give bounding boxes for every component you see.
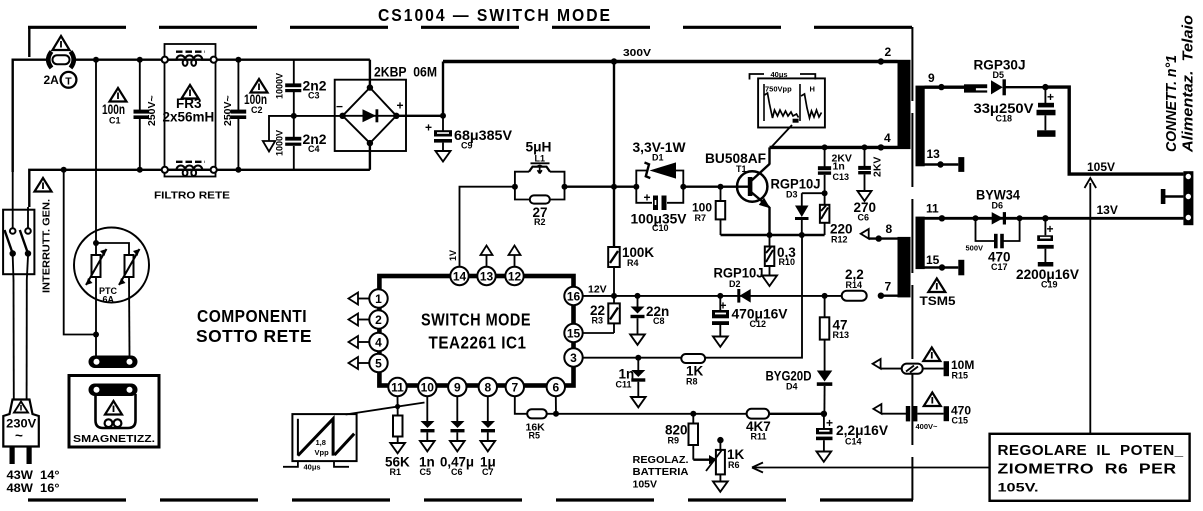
svg-text:3: 3 [570, 351, 577, 365]
diode D5 RGP30J [991, 79, 1045, 95]
svg-text:C10: C10 [652, 223, 669, 233]
warning triangle interrutt [35, 178, 52, 192]
svg-text:SMAGNETIZZ.: SMAGNETIZZ. [73, 433, 155, 445]
capacitor C19 2200u16V [1037, 218, 1054, 266]
pin 12 [505, 267, 523, 285]
warning triangle C2 [251, 79, 268, 93]
junction dot pin6 [553, 411, 559, 417]
transformer secondary winding 11-15 [916, 217, 925, 270]
svg-text:R11: R11 [751, 432, 767, 442]
svg-text:R4: R4 [627, 258, 639, 268]
wire pin 11 / 13V rail [925, 217, 1184, 220]
wire R4 to 12V rail [613, 267, 615, 296]
label 40us bracket [750, 70, 816, 80]
label 16K R5 [526, 422, 546, 441]
junction dot x614 base wire [611, 184, 617, 190]
resistor R7 100 [716, 187, 726, 235]
diode D1 parallel C10 loop [636, 171, 683, 203]
wire collector row pin4 [770, 146, 898, 149]
svg-text:D3: D3 [786, 190, 798, 200]
resistor R11 4K7 [747, 409, 770, 419]
junction dot pin11 [939, 215, 945, 221]
junction dot [93, 332, 99, 338]
degauss connector bar [89, 356, 138, 369]
junction dot C16 [1042, 84, 1048, 90]
label 1n C11 [616, 367, 635, 390]
svg-text:SWITCH MODE: SWITCH MODE [421, 310, 531, 330]
junction dot [235, 167, 241, 173]
svg-text:C9: C9 [461, 141, 473, 151]
mains plug 230V [3, 400, 39, 447]
wire mains L to fuse [13, 60, 47, 172]
svg-text:2x56mH: 2x56mH [163, 110, 215, 125]
label FR3 2x56mH [163, 96, 215, 125]
smagnetizz box [69, 376, 159, 448]
label 2KV 1n C13 [832, 153, 852, 183]
dashed border right / isolation line [911, 27, 913, 500]
svg-text:FILTRO RETE: FILTRO RETE [154, 190, 230, 202]
callout line waveform to collector [770, 125, 792, 149]
svg-text:R14: R14 [846, 280, 863, 290]
svg-text:L1: L1 [535, 154, 546, 164]
degauss coil symbol [96, 394, 136, 428]
svg-text:D6: D6 [992, 201, 1004, 211]
pin8 arrow terminal [861, 229, 898, 239]
wire PTC feed [95, 60, 97, 243]
capacitor C4 [285, 116, 301, 170]
label 1u C7 [480, 455, 496, 478]
svg-text:R12: R12 [831, 235, 848, 245]
op-amp IC1 TEA2261 box [379, 276, 573, 386]
svg-text:+: + [1047, 222, 1054, 236]
svg-text:C8: C8 [653, 316, 665, 326]
pin 13 [477, 267, 495, 285]
svg-text:BATTERIA: BATTERIA [633, 466, 689, 478]
svg-text:750Vpp: 750Vpp [765, 85, 792, 94]
arrow pin 1 [349, 293, 370, 305]
thermistor PTC b [119, 249, 140, 285]
wire bridge AC bottom [369, 143, 371, 170]
svg-text:D4: D4 [786, 382, 798, 392]
transformer secondary winding 9-13 [916, 86, 925, 167]
junction dot C12 [717, 293, 723, 299]
label RGP10J D2 [714, 266, 764, 290]
capacitor C11 1n [631, 358, 645, 397]
chassis arrow C7 [481, 441, 496, 451]
label 68u385V C9 [454, 128, 512, 151]
svg-text:500V: 500V [966, 244, 984, 253]
svg-text:6A: 6A [103, 295, 115, 305]
terminal bar pin13 [958, 157, 964, 172]
junction dot C17 left [973, 215, 979, 221]
svg-text:R3: R3 [592, 316, 604, 326]
svg-text:300V: 300V [623, 47, 651, 59]
waveform box 750Vpp [758, 78, 825, 127]
svg-text:+: + [397, 99, 404, 113]
svg-text:C6: C6 [451, 467, 463, 477]
junction dot [137, 167, 143, 173]
capacitor C6 270 2KV [858, 147, 871, 191]
label 820 R9 [665, 423, 688, 446]
wire pin 13 [925, 163, 959, 165]
resistor R13 47 [820, 296, 830, 371]
svg-text:+: + [1047, 90, 1054, 104]
junction dot pin7 [878, 293, 884, 299]
dashed border corner stub [28, 26, 30, 57]
zener D1 3,3V-1W [645, 162, 677, 178]
svg-text:14: 14 [453, 270, 467, 284]
arrow pin 13 [481, 246, 493, 267]
junction dot C13 top [822, 144, 828, 150]
chassis arrow C5 [420, 441, 435, 451]
resistor R4 100K [608, 247, 620, 267]
junction dot C6 top [862, 144, 868, 150]
label 100K R4 [622, 245, 654, 268]
transformer primary winding 8-7 [898, 237, 911, 298]
svg-text:9: 9 [928, 71, 935, 85]
svg-text:13: 13 [480, 270, 494, 284]
wire pin7 [881, 295, 903, 297]
junction dot pin9 [938, 84, 944, 90]
svg-text:REGOLAZ.: REGOLAZ. [633, 454, 689, 466]
label 2A (T) [44, 72, 77, 88]
potentiometer R6 1K [693, 437, 725, 482]
pin 1 [369, 289, 387, 307]
pin 11 [388, 378, 406, 396]
svg-text:R8: R8 [686, 377, 698, 387]
svg-text:TSM5: TSM5 [920, 294, 956, 308]
fuse F1 2A [48, 52, 74, 68]
capacitor C14 2,2u16V [816, 414, 833, 452]
svg-text:C11: C11 [616, 380, 632, 390]
label 40us bottom [283, 461, 349, 471]
thermistor PTC a [86, 243, 107, 285]
arrow pin 2L [349, 314, 370, 326]
svg-text:R2: R2 [534, 217, 546, 227]
svg-text:2,2μ16V: 2,2μ16V [836, 423, 888, 438]
warning triangle FR3 [182, 85, 199, 99]
label PTC 6A [99, 286, 118, 305]
label BU508AF T1 [705, 151, 766, 174]
svg-text:40μs: 40μs [771, 70, 788, 79]
resistor R2 [530, 195, 550, 203]
svg-text:250V~: 250V~ [222, 95, 234, 126]
svg-text:R10: R10 [779, 257, 796, 267]
svg-text:R7: R7 [695, 213, 707, 223]
svg-text:C15: C15 [952, 416, 969, 426]
svg-text:+: + [644, 191, 651, 205]
svg-text:1: 1 [375, 292, 382, 306]
warning triangle smagnetizz [105, 401, 122, 415]
svg-text:400V~: 400V~ [916, 422, 939, 431]
arrow pin 12 [509, 246, 521, 267]
svg-text:+: + [826, 416, 833, 430]
svg-text:R1: R1 [390, 467, 402, 477]
svg-text:15: 15 [567, 327, 581, 341]
resistor R1 56K [393, 396, 403, 443]
junction dot pin4 [878, 144, 884, 150]
wire D1 to base [683, 185, 748, 187]
junction dot [61, 167, 67, 173]
dashed border top [28, 26, 913, 29]
arrow pin 4L [349, 336, 370, 348]
svg-text:C12: C12 [750, 319, 767, 329]
label 270 C6 [854, 200, 877, 223]
label 22 R3 [590, 303, 605, 326]
svg-text:1n: 1n [833, 161, 845, 173]
junction dot [137, 57, 143, 63]
junction dot pin2 [878, 58, 884, 64]
label 500V 470 C17 [966, 244, 1011, 273]
svg-text:SOTTO RETE: SOTTO RETE [196, 326, 312, 346]
note box REGOLARE [990, 434, 1190, 501]
label 2,2u16V C14 [836, 423, 888, 447]
wire D3 node [802, 192, 825, 194]
svg-text:R5: R5 [529, 431, 541, 441]
wire pin 6 stub [555, 396, 557, 414]
diode D3 RGP10J [795, 193, 809, 235]
svg-text:C19: C19 [1041, 280, 1058, 290]
FR3 terminal circles [162, 57, 217, 173]
svg-text:2KBP 06M: 2KBP 06M [374, 65, 437, 80]
diode D2 RGP10J [737, 289, 750, 303]
label 56K R1 [385, 455, 410, 478]
junction dot R13 top [822, 293, 828, 299]
junction dot PTC [93, 240, 99, 246]
svg-text:48W 16°: 48W 16° [7, 481, 60, 495]
label 10M R15 [951, 358, 974, 381]
wire 12V rail [583, 295, 842, 297]
capacitor C3 [285, 60, 301, 116]
pin 10 [418, 378, 436, 396]
ground R10 [762, 276, 777, 287]
label 4K7 R11 [746, 419, 771, 442]
label RGP10J D3 [771, 177, 821, 200]
svg-text:15: 15 [926, 253, 940, 267]
svg-text:C6: C6 [858, 213, 870, 223]
wire emitter rail [721, 234, 825, 236]
label 2n2 C4 [303, 132, 327, 154]
svg-text:C7: C7 [482, 467, 494, 477]
svg-text:TEA2261 IC1: TEA2261 IC1 [429, 333, 527, 353]
resistor R3 22 [583, 296, 620, 333]
diode D6 BYW34 [992, 212, 1006, 224]
wire emitter [768, 207, 770, 235]
label 2200u16V C19 [1016, 267, 1079, 290]
wire 105V path [1045, 87, 1183, 174]
junction dot L1 right [562, 184, 568, 190]
wire pin 9 [925, 85, 965, 88]
pin 9B [448, 378, 466, 396]
svg-text:R15: R15 [952, 371, 969, 381]
svg-text:R13: R13 [833, 330, 850, 340]
wire degauss from bottom rail [64, 170, 96, 335]
svg-text:C1: C1 [109, 116, 121, 126]
svg-text:D2: D2 [729, 279, 741, 289]
svg-text:40μs: 40μs [304, 463, 321, 472]
chassis arrow C6b [450, 441, 465, 451]
svg-text:COMPONENTI: COMPONENTI [197, 306, 307, 326]
svg-text:7: 7 [511, 381, 518, 395]
pin 4L [369, 333, 387, 351]
junction dot C17 right [1017, 215, 1023, 221]
pin 5 [369, 354, 387, 372]
plug prongs [10, 447, 32, 465]
svg-text:5: 5 [375, 357, 382, 371]
svg-text:1,8: 1,8 [316, 438, 326, 447]
svg-text:8: 8 [484, 381, 491, 395]
svg-text:+: + [425, 121, 432, 135]
svg-text:12: 12 [508, 270, 522, 284]
smagnetizz connector bar [89, 384, 138, 397]
svg-text:REGOLARE IL POTEN_: REGOLARE IL POTEN_ [998, 442, 1184, 459]
svg-text:C14: C14 [845, 437, 862, 447]
resistor R9 820 [689, 414, 699, 460]
junction dot C8 [635, 293, 641, 299]
resistor R12 220 [820, 193, 830, 235]
svg-text:9: 9 [454, 381, 461, 395]
label 2,2 R14 [845, 267, 864, 290]
wire R8 to emitter node [705, 235, 802, 358]
arrow pin 5 [349, 357, 370, 369]
label BYG20D D4 [766, 369, 812, 392]
warning triangle C15 [924, 393, 941, 407]
resistor R8 1K [681, 354, 705, 363]
label 1K R6 [727, 447, 745, 470]
label 1,8 Vpp [315, 438, 330, 457]
resistor R15 10M row [873, 359, 949, 376]
inductor FR3 top coil [168, 52, 211, 66]
capacitor C9 68u385V [425, 116, 452, 151]
svg-text:43W 14°: 43W 14° [7, 468, 60, 482]
svg-text:4: 4 [884, 131, 891, 145]
sawtooth scope box [292, 414, 356, 461]
junction dot emitter [767, 232, 773, 238]
pin 8B [479, 378, 497, 396]
wire bridge AC top [369, 60, 371, 88]
label 5uH L1 [526, 140, 552, 164]
svg-text:C13: C13 [833, 172, 850, 182]
svg-text:C2: C2 [251, 105, 263, 115]
fusible link [964, 84, 988, 92]
wire plug L [13, 280, 15, 400]
capacitor C8 22n [631, 296, 645, 335]
wire base drive [565, 185, 637, 187]
svg-text:ZIOMETRO R6 PER: ZIOMETRO R6 PER [998, 461, 1177, 478]
label 27 R2 [533, 205, 548, 227]
warning triangle R15 [923, 348, 940, 362]
wire plug N [26, 280, 28, 400]
svg-text:2: 2 [375, 313, 382, 327]
svg-text:105V.: 105V. [998, 481, 1039, 495]
svg-text:12V: 12V [588, 284, 607, 296]
callout line sawtooth to pin10 [346, 403, 425, 415]
svg-text:Vpp: Vpp [315, 448, 330, 457]
bridge diamond [339, 84, 399, 146]
svg-text:+: + [720, 299, 727, 313]
junction dot R9 [690, 411, 696, 417]
inductor L1 parallel loop [515, 166, 565, 200]
capacitor C17 470 500V loop [976, 218, 1020, 248]
svg-text:250V~: 250V~ [146, 95, 158, 126]
pin 3R [564, 348, 582, 366]
chassis arrow under 1000V [263, 141, 275, 152]
svg-text:6: 6 [552, 381, 559, 395]
capacitor C1 [134, 60, 150, 170]
ground C8 [630, 335, 645, 345]
label 0,47u C6 [440, 455, 474, 478]
label 2n2 C3 [303, 79, 327, 101]
svg-text:C3: C3 [308, 91, 320, 101]
resistor R5 16K [515, 396, 556, 418]
svg-text:8: 8 [886, 222, 893, 236]
wire pin 3 row [583, 357, 681, 359]
connector stub terminal [1161, 189, 1184, 204]
label RGP30J D5 [974, 58, 1026, 81]
label 0,3 R10 [777, 245, 796, 267]
junction dot C14 node [821, 411, 827, 417]
ground C9 [436, 151, 451, 162]
wire 300V rail [443, 60, 898, 63]
svg-text:H: H [810, 85, 815, 94]
svg-text:13V: 13V [1097, 203, 1118, 217]
diode D4 BYG20D [817, 371, 833, 414]
svg-text:R6: R6 [728, 460, 740, 470]
svg-text:7: 7 [885, 280, 892, 294]
inductor FR3 bottom coil [168, 162, 211, 176]
pin 2L [369, 310, 387, 328]
wire pin 15 [925, 266, 959, 268]
svg-text:R9: R9 [668, 436, 680, 446]
wire pin 14 to L1 [460, 187, 515, 267]
junction dot L1 left [512, 184, 518, 190]
wire note arrow to R6 [752, 463, 990, 473]
svg-text:C4: C4 [308, 144, 320, 154]
terminal bar pin15 [958, 260, 964, 276]
label COMPONENTI SOTTO RETE [196, 306, 312, 346]
label 470u16V C12 [732, 307, 788, 330]
pin 15R [564, 324, 582, 342]
svg-text:105V: 105V [1087, 160, 1115, 174]
svg-text:2: 2 [885, 45, 892, 59]
label 100 R7 [692, 201, 712, 224]
dashed border bottom [28, 498, 913, 501]
svg-text:C18: C18 [996, 114, 1013, 124]
capacitor C5 1n [421, 396, 435, 441]
wire bridge minus node [269, 116, 343, 141]
wire HV vertical x614 [613, 62, 615, 248]
wire PTC link [96, 243, 129, 255]
ground C11 [631, 397, 646, 407]
switch pole 2 [20, 207, 31, 280]
capacitor C7 1u [481, 396, 495, 441]
wire collector [768, 147, 770, 164]
hatch R4 [610, 251, 618, 263]
label 47 R13 [833, 318, 850, 341]
svg-text:11: 11 [391, 381, 404, 395]
label 220 R12 [830, 222, 853, 245]
svg-text:1000V: 1000V [275, 130, 285, 156]
capacitor C15 470 row [873, 404, 949, 421]
ground R6 [713, 482, 728, 492]
junction dot D1 left [633, 184, 639, 190]
svg-text:2A: 2A [44, 73, 60, 87]
switch box INTERRUTT GEN [3, 210, 34, 275]
junction dot [93, 57, 99, 63]
label 100n C1 [102, 102, 125, 126]
svg-text:1V: 1V [448, 250, 458, 261]
junction dot [235, 57, 241, 63]
